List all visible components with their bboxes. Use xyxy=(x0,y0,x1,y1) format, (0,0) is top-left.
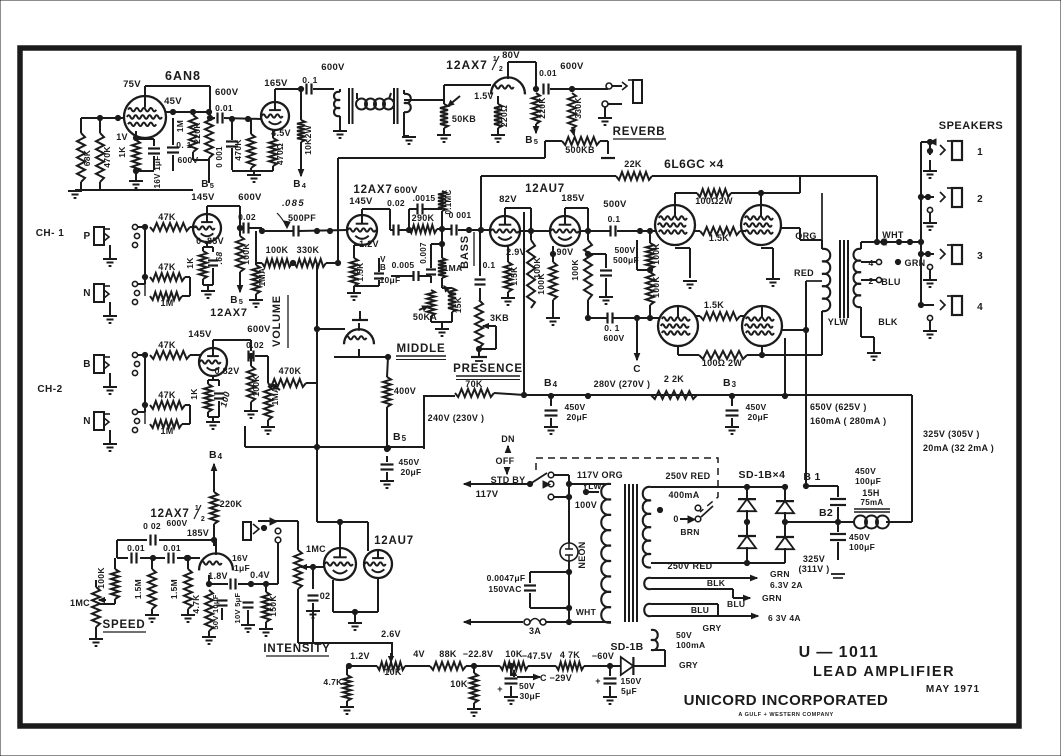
svg-text:450V: 450V xyxy=(564,402,585,412)
svg-text:280V (270V ): 280V (270V ) xyxy=(594,379,651,389)
resistor 330K vol xyxy=(294,259,326,267)
wire 2.6V line xyxy=(312,612,314,643)
wire V1 plate to 600V line xyxy=(144,86,146,96)
coil reverb pickup xyxy=(404,94,411,112)
ground 1.5K 12au7 xyxy=(507,292,509,297)
svg-text:BRN: BRN xyxy=(680,527,699,537)
svg-text:1: 1 xyxy=(977,147,983,158)
coil OT secondary xyxy=(854,249,862,307)
svg-text:100mA: 100mA xyxy=(676,640,705,650)
svg-text:220K: 220K xyxy=(537,97,547,119)
svg-text:400V: 400V xyxy=(394,386,416,396)
wire OT bottom leads xyxy=(821,322,823,355)
resistor 220K xyxy=(205,115,213,158)
svg-text:BLU: BLU xyxy=(727,599,745,609)
svg-text:1M: 1M xyxy=(160,426,173,436)
svg-text:500KB: 500KB xyxy=(565,145,595,155)
svg-text:100K: 100K xyxy=(570,259,580,281)
wire drive bot xyxy=(587,300,589,318)
svg-text:VOLUME: VOLUME xyxy=(271,295,283,347)
resistor 100K ch2 xyxy=(247,366,255,402)
wire pot2 left xyxy=(528,665,556,667)
ground tone xyxy=(435,328,449,330)
capacitor 1uF trem xyxy=(229,579,231,590)
svg-text:4.7K: 4.7K xyxy=(191,594,201,614)
svg-text:−60V: −60V xyxy=(592,651,614,661)
svg-text:50V: 50V xyxy=(519,681,535,691)
svg-text:600V: 600V xyxy=(247,324,271,335)
svg-text:12AU7: 12AU7 xyxy=(374,535,414,547)
wire ch2 cathode xyxy=(212,376,214,380)
svg-text:1.5K: 1.5K xyxy=(704,300,724,310)
svg-text:82V: 82V xyxy=(499,194,517,205)
svg-text:160mA ( 280mA ): 160mA ( 280mA ) xyxy=(810,416,886,426)
svg-text:15K: 15K xyxy=(453,296,463,313)
wire 2.6V drop xyxy=(313,643,392,658)
svg-text:68K: 68K xyxy=(82,149,92,166)
wire 117V arrow xyxy=(464,483,489,485)
wire bias mid xyxy=(584,665,610,667)
capacitor 0.001 xyxy=(231,119,233,140)
svg-text:600V: 600V xyxy=(321,62,345,73)
ground jack B xyxy=(109,373,111,386)
footswitch jack xyxy=(243,522,251,540)
svg-text:100μF: 100μF xyxy=(855,476,881,486)
svg-text:4: 4 xyxy=(868,258,873,268)
resistor 470K V1b xyxy=(247,134,255,168)
svg-text:SD-1B: SD-1B xyxy=(610,641,643,653)
tube 6L6 1 xyxy=(655,205,695,245)
svg-text:500V: 500V xyxy=(614,245,635,255)
wire B1 node xyxy=(803,483,808,488)
ground V1b xyxy=(247,174,261,176)
wire trem tubes bottom xyxy=(332,580,334,612)
svg-text:15H: 15H xyxy=(862,488,879,498)
svg-text:50KA: 50KA xyxy=(413,312,437,322)
svg-text:1.2V: 1.2V xyxy=(350,651,370,661)
ground spk4 xyxy=(927,315,932,320)
capacitor 0.01 xyxy=(210,117,215,119)
svg-text:LEAD AMPLIFIER: LEAD AMPLIFIER xyxy=(813,664,955,680)
svg-text:100K: 100K xyxy=(241,243,251,265)
wire reverb cathode xyxy=(497,96,499,104)
wire 04V node xyxy=(251,583,278,585)
svg-text:50V 10μF: 50V 10μF xyxy=(211,594,220,629)
wire speed pot xyxy=(95,580,97,587)
svg-text:450V: 450V xyxy=(398,457,419,467)
wire screens drop xyxy=(784,338,786,396)
ground 50KB xyxy=(443,128,445,134)
svg-text:500PF: 500PF xyxy=(288,213,316,223)
svg-text:1K: 1K xyxy=(185,257,195,269)
svg-text:145V: 145V xyxy=(349,196,373,207)
capacitor .68 xyxy=(212,247,214,252)
coil 50V bias xyxy=(651,630,658,650)
jack N ch2 xyxy=(94,412,104,430)
resistor 22K xyxy=(616,172,652,180)
capacitor B1 100uF xyxy=(830,498,846,500)
wire 68K top xyxy=(80,118,82,133)
svg-text:CH-2: CH-2 xyxy=(37,384,62,395)
resistor 220ohm reverb xyxy=(494,104,502,128)
jack speaker 4 xyxy=(918,302,923,307)
svg-text:0 001: 0 001 xyxy=(449,210,472,220)
svg-text:150V: 150V xyxy=(620,676,641,686)
transformer OT core xyxy=(839,240,841,318)
coil reverb secondary loops xyxy=(356,99,367,110)
resistor 100ohm2W bot xyxy=(699,351,747,359)
svg-text:12AU7: 12AU7 xyxy=(525,183,565,195)
svg-text:3A: 3A xyxy=(529,626,541,636)
svg-text:117V ORG: 117V ORG xyxy=(577,470,623,480)
wire YLW tap xyxy=(583,489,588,494)
capacitor 0.1 top xyxy=(305,84,307,95)
ground reverb jack xyxy=(604,107,606,117)
wire reverb out xyxy=(550,88,608,90)
wire OT top lead xyxy=(876,176,878,242)
wire 290K right xyxy=(437,228,451,230)
wire mid plate to cap xyxy=(389,226,391,230)
svg-text:470K: 470K xyxy=(102,146,112,168)
wire 185V plate xyxy=(564,208,566,216)
svg-text:6AN8: 6AN8 xyxy=(165,69,201,83)
wire V1b cathode xyxy=(272,130,274,138)
svg-text:1MA: 1MA xyxy=(444,263,463,273)
ground speed xyxy=(89,638,103,640)
svg-text:B: B xyxy=(380,263,386,272)
resistor 1K ch1 xyxy=(199,251,207,279)
coil 6.3V 4A xyxy=(644,604,651,616)
capacitor 450V 20uF B4 xyxy=(550,396,552,406)
resistor 4.7K trem xyxy=(205,590,213,631)
resistor 47K ch2 b xyxy=(150,401,185,409)
tube 6L6 3 xyxy=(658,306,698,346)
svg-text:220K: 220K xyxy=(220,499,243,509)
resistor 10K down xyxy=(470,673,478,703)
wire cap to reverb coil xyxy=(313,88,334,90)
svg-text:0 02: 0 02 xyxy=(143,521,161,531)
resistor 1.5M b xyxy=(184,569,192,609)
coil PT HV xyxy=(643,487,651,568)
svg-text:100K: 100K xyxy=(536,273,546,295)
resistor 400V vert xyxy=(383,377,391,407)
svg-text:1.5M: 1.5M xyxy=(169,579,179,599)
svg-text:450V: 450V xyxy=(855,466,876,476)
svg-text:290K: 290K xyxy=(412,213,435,223)
wire B2 cap gnd xyxy=(831,573,845,575)
svg-text:YLW: YLW xyxy=(828,317,849,327)
wire trem left xyxy=(116,540,118,558)
ground 220ohm xyxy=(497,128,499,134)
svg-text:6 3V 4A: 6 3V 4A xyxy=(768,613,801,623)
svg-text:150VAC: 150VAC xyxy=(488,584,521,594)
capacitor 16V 1uF xyxy=(136,138,154,140)
wire trem cathode xyxy=(208,575,210,584)
jack reverb xyxy=(606,83,612,89)
wire 500uF xyxy=(588,253,606,255)
arrow B5 reverb xyxy=(535,124,537,133)
resistor 4.7K left xyxy=(343,675,351,701)
svg-text:47K: 47K xyxy=(158,340,176,350)
wire OT prim connect xyxy=(821,193,823,249)
svg-text:4: 4 xyxy=(977,302,983,313)
svg-text:BLK: BLK xyxy=(878,317,898,327)
arrow 63V4A xyxy=(740,615,758,617)
resistor 1MA tone xyxy=(438,258,446,278)
wire trem grid xyxy=(313,566,324,568)
resistor 100K trem xyxy=(111,569,119,599)
svg-text:1M: 1M xyxy=(160,298,173,308)
wire 100K a xyxy=(530,231,532,240)
ground ch1 cathode xyxy=(201,290,215,292)
svg-text:185V: 185V xyxy=(187,528,209,538)
jack speaker 2 xyxy=(918,194,923,199)
svg-text:4.7K: 4.7K xyxy=(323,677,343,687)
wire P to 47K xyxy=(138,226,145,228)
wire reverb tube plate xyxy=(507,62,509,70)
capacitor 50V 10uF xyxy=(217,599,228,601)
wire 10K down xyxy=(473,666,475,673)
wire RED centre tap xyxy=(806,280,822,282)
arrow C-29V xyxy=(517,676,540,678)
arrow GRN1 xyxy=(741,577,757,579)
coil 6.3V 2A xyxy=(644,578,651,589)
capacitor 150V 5uF xyxy=(609,666,611,676)
resistor 100ohm2W top xyxy=(697,189,731,197)
wire V1 cathode xyxy=(135,131,137,140)
wire 0015 branch xyxy=(408,209,410,230)
svg-text:RED: RED xyxy=(794,268,814,278)
svg-text:70K: 70K xyxy=(465,379,483,389)
svg-text:3KB: 3KB xyxy=(490,313,509,323)
svg-text:B: B xyxy=(209,449,217,461)
ground spk1 xyxy=(929,160,931,170)
svg-text:BLU: BLU xyxy=(691,605,709,615)
svg-text:12AX7: 12AX7 xyxy=(353,184,392,196)
capacitor 0.01 reverb xyxy=(542,84,544,95)
svg-text:10K2W: 10K2W xyxy=(303,124,313,155)
capacitor 0 001 xyxy=(450,225,452,236)
svg-text:75V: 75V xyxy=(123,79,141,90)
wire 1K bottom xyxy=(202,279,204,285)
wire 100K c xyxy=(587,231,589,240)
wire B4 arrow up ch2 xyxy=(213,464,215,478)
svg-text:INTENSITY: INTENSITY xyxy=(263,643,330,655)
svg-text:3: 3 xyxy=(732,380,737,389)
resistor 100K a xyxy=(527,240,535,308)
wire 100K o wiring xyxy=(649,231,651,243)
label C arrow xyxy=(636,340,638,360)
ground OT BLK xyxy=(867,352,881,354)
ground 1MA xyxy=(255,294,257,299)
svg-text:C −29V: C −29V xyxy=(540,673,572,683)
ground V1 cathode xyxy=(129,180,143,182)
svg-text:20μF: 20μF xyxy=(747,412,768,422)
wire primary bottom xyxy=(569,621,611,623)
svg-text:B: B xyxy=(544,377,552,389)
capacitor 500PF xyxy=(292,226,294,237)
wire int wiper node xyxy=(310,564,315,569)
svg-text:1M: 1M xyxy=(175,120,185,132)
wire ch2 plate xyxy=(212,340,214,348)
svg-text:C: C xyxy=(633,364,641,375)
svg-text:100K: 100K xyxy=(266,245,289,255)
svg-text:0.4V: 0.4V xyxy=(250,570,270,580)
capacitor 0.007 xyxy=(430,261,432,268)
wire OT sec tap2 xyxy=(861,279,876,281)
wire OT sec bottom xyxy=(860,307,862,322)
wire HV bottom lead xyxy=(651,562,745,564)
svg-text:1K: 1K xyxy=(189,388,199,400)
svg-text:50KB: 50KB xyxy=(452,114,476,124)
svg-text:6.3V 2A: 6.3V 2A xyxy=(770,580,803,590)
resistor 470ohm cathode xyxy=(269,138,277,166)
svg-text:B2: B2 xyxy=(819,507,833,519)
wire 45V node xyxy=(165,111,212,113)
wire 100ohm top xyxy=(674,199,676,205)
ground jack N2 xyxy=(109,430,111,443)
svg-text:250V RED: 250V RED xyxy=(666,471,711,481)
diode bridge D3 xyxy=(738,536,756,548)
wire ch1 plate xyxy=(206,206,208,214)
svg-text:5: 5 xyxy=(210,181,214,190)
wire 470K V1b top xyxy=(250,119,252,134)
ground spk2 xyxy=(927,207,932,212)
tube 12AX7 reverb xyxy=(491,77,525,94)
diode bridge D4 xyxy=(776,537,794,549)
resistor 1M ch2 xyxy=(150,420,182,428)
resistor 100K o1 xyxy=(646,243,654,269)
svg-text:240V (230V ): 240V (230V ) xyxy=(428,413,485,423)
resistor 220K reverb xyxy=(532,93,540,124)
ground reverb primary xyxy=(339,124,341,130)
pot 10K bias1 xyxy=(377,662,405,670)
svg-text:GRY: GRY xyxy=(702,623,721,633)
resistor 1.5K top xyxy=(700,227,740,235)
wire bus join ch1 xyxy=(144,227,146,277)
wire presence bracket xyxy=(493,325,496,327)
svg-text:P: P xyxy=(84,231,91,242)
svg-text:B: B xyxy=(525,135,533,146)
diode bridge D1 xyxy=(738,499,756,511)
wire OT sec top xyxy=(860,242,862,249)
capacitor 0.01 a xyxy=(117,557,128,559)
svg-text:0.007: 0.007 xyxy=(419,242,428,264)
wire 1M ch2 join xyxy=(182,423,190,425)
svg-text:SD-1B×4: SD-1B×4 xyxy=(739,469,786,481)
svg-text:.0 8 5: .0 8 5 xyxy=(282,198,304,209)
svg-text:325V: 325V xyxy=(803,554,825,564)
svg-text:325V (305V ): 325V (305V ) xyxy=(923,429,980,439)
svg-text:220Ω: 220Ω xyxy=(499,105,509,127)
wire 1MC int wiring xyxy=(297,589,299,643)
ground 1MA ch2 xyxy=(267,420,269,426)
svg-text:500μF: 500μF xyxy=(613,255,639,265)
wire trem tube top xyxy=(215,540,217,546)
svg-text:330K: 330K xyxy=(297,245,320,255)
svg-text:10K: 10K xyxy=(505,649,523,659)
capacitor 0.1 600V xyxy=(172,118,174,145)
svg-text:MAY 1971: MAY 1971 xyxy=(926,684,980,695)
wire 1K to ground xyxy=(135,172,137,181)
svg-text:330K: 330K xyxy=(573,97,583,119)
svg-text:2.6V: 2.6V xyxy=(381,629,401,639)
pot 1MC speed xyxy=(92,587,100,627)
wire 47K ch2 to grid xyxy=(190,354,202,356)
svg-text:12AX7: 12AX7 xyxy=(446,58,488,72)
resistor 1MA xyxy=(252,265,260,294)
wire 50KA gnd xyxy=(430,316,432,322)
wire 6L6 2 right xyxy=(781,227,800,229)
svg-text:100μF: 100μF xyxy=(849,542,875,552)
svg-text:0.01: 0.01 xyxy=(127,543,145,553)
switch mains xyxy=(489,483,530,485)
svg-text:BLU: BLU xyxy=(881,277,900,287)
svg-text:100V: 100V xyxy=(575,500,597,510)
svg-text:470Ω: 470Ω xyxy=(275,143,285,165)
svg-text:5: 5 xyxy=(402,434,407,443)
svg-text:250V RED: 250V RED xyxy=(668,561,713,571)
capacitor 0.02 ch2 xyxy=(247,351,249,362)
svg-text:CH- 1: CH- 1 xyxy=(36,228,65,239)
svg-text:220K: 220K xyxy=(192,122,202,144)
wire 330K to 500KB xyxy=(600,140,608,142)
wire 220K bottom xyxy=(192,152,194,160)
svg-text:3: 3 xyxy=(977,251,983,262)
resistor 100K c xyxy=(584,240,592,300)
svg-text:100K: 100K xyxy=(96,567,106,589)
wire ch2 bottom bus xyxy=(245,446,424,448)
wire ch2 100K bottom xyxy=(250,402,252,410)
wire vol node xyxy=(256,262,262,264)
wire 1MA tone bot xyxy=(441,278,443,288)
wire right rail xyxy=(911,395,913,522)
tube 6L6 4 xyxy=(742,306,782,346)
svg-text:B 1: B 1 xyxy=(803,471,820,483)
svg-text:1.5K: 1.5K xyxy=(509,266,519,286)
wire mid plate xyxy=(361,209,363,215)
diode bridge D2 xyxy=(776,501,794,513)
svg-text:BLK: BLK xyxy=(707,578,726,588)
svg-text:GRY: GRY xyxy=(679,660,698,670)
svg-text:450V: 450V xyxy=(745,402,766,412)
wire mid2 grid xyxy=(317,328,345,330)
svg-text:1MC: 1MC xyxy=(70,598,90,608)
svg-text:4: 4 xyxy=(302,181,307,190)
svg-text:185V: 185V xyxy=(561,193,585,204)
wire B5 node xyxy=(386,407,388,449)
dashed standby line xyxy=(536,458,718,512)
pot 50KB xyxy=(440,104,448,128)
capacitor 0.02 trem xyxy=(117,539,147,541)
resistor 470K ch2 xyxy=(268,379,306,387)
svg-text:1.5K: 1.5K xyxy=(355,262,365,282)
wire 500PF wires xyxy=(261,228,263,231)
wire 470K right up xyxy=(306,382,317,384)
svg-text:1.8V: 1.8V xyxy=(208,571,228,581)
wire 12au7b wiring xyxy=(531,230,550,232)
svg-text:0.1: 0.1 xyxy=(608,214,621,224)
wire grn2 xyxy=(733,597,750,599)
svg-text:2 2K: 2 2K xyxy=(664,374,684,384)
capacitor 100 italic xyxy=(218,380,220,386)
svg-text:47K: 47K xyxy=(158,390,176,400)
svg-text:2.9V: 2.9V xyxy=(506,247,526,257)
ground trem tubes xyxy=(348,622,362,624)
ground reverb pickup xyxy=(402,136,416,138)
svg-text:OFF: OFF xyxy=(496,456,515,466)
pot 1MC intensity xyxy=(294,550,302,589)
